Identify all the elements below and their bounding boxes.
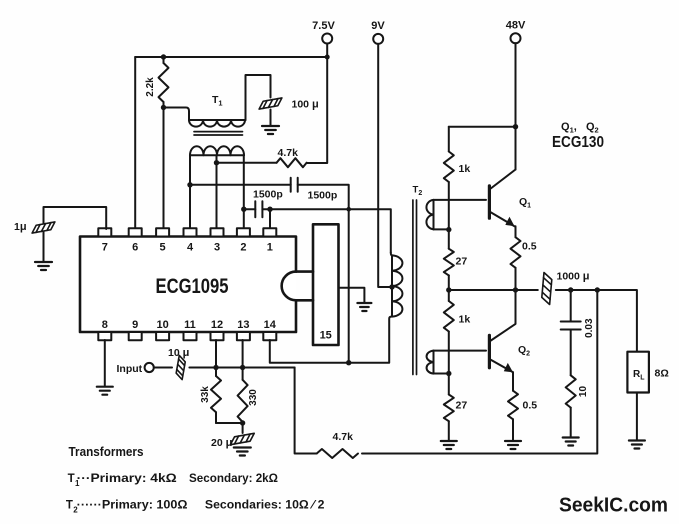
svg-text:10 μ: 10 μ [168, 347, 189, 359]
svg-text:14: 14 [264, 319, 277, 331]
capacitor C 1u [31, 222, 56, 233]
wire input line to feedback corner [189, 367, 294, 369]
svg-text:9V: 9V [371, 20, 385, 32]
svg-text:330: 330 [248, 389, 259, 406]
node line1/line2 crossing junction [346, 207, 351, 212]
wire pin3 drop [216, 163, 218, 229]
op-amp IC U1 ECG1095 body [80, 237, 296, 333]
resistor 1k upper [444, 127, 471, 230]
node pin13 junction [240, 365, 245, 370]
IC pin boxes [98, 228, 276, 340]
svg-text:1k: 1k [459, 163, 471, 175]
ground T2 chain [441, 441, 457, 449]
wire 7.5V down to y57 and to 4.7k [307, 44, 328, 164]
node 9V terminal [371, 20, 385, 44]
svg-text:27: 27 [456, 400, 468, 412]
svg-text:Input: Input [117, 363, 143, 375]
ground pin8 [97, 387, 113, 395]
resistor 27 upper [444, 230, 468, 290]
capacitor C 1000u [541, 272, 552, 304]
wire line1 y185 left [190, 184, 291, 186]
transformer T2 secondary 1 winding [426, 200, 448, 230]
wire T1 center tap [216, 155, 218, 163]
wire 33k bottom to 330 bottom [216, 422, 243, 424]
ground near 15 box [357, 303, 371, 311]
label Q1 Q2 ECG130 [552, 121, 604, 151]
svg-text:3: 3 [214, 242, 220, 254]
transformer T1 secondary winding [190, 146, 244, 155]
node T2 primary center tap [389, 284, 394, 289]
node Input terminal [117, 363, 154, 375]
node rail feedback junction [595, 287, 600, 292]
ground Q2 emitter [505, 441, 521, 449]
transformer T2 primary winding [391, 253, 403, 317]
node 7.5V terminal [312, 20, 335, 44]
wire RL to ground [636, 393, 638, 440]
wire feedback to input line [295, 368, 317, 454]
resistor 33k [200, 368, 221, 424]
svg-text:T: T [68, 473, 75, 485]
wire pin1 drop [269, 209, 271, 229]
wire feedback right drop [362, 290, 597, 454]
capacitor C 1500p lower [255, 201, 262, 217]
wire line2 right + drop x390.8 [262, 209, 390, 252]
node rail mid junction [513, 287, 518, 292]
wire pin12 drop [215, 340, 217, 368]
wire pin8 to ground [104, 340, 106, 386]
capacitor C 1500p upper [253, 178, 337, 202]
node 48V/1k junction [513, 124, 518, 129]
svg-text:0.5: 0.5 [523, 400, 538, 412]
wire pin14 to T2 primary bottom [270, 317, 392, 363]
ground below 100u [262, 126, 279, 134]
svg-text:100 μ: 100 μ [292, 99, 319, 111]
svg-text:13: 13 [237, 319, 249, 331]
svg-text:9: 9 [132, 319, 138, 331]
label T2 specs [66, 500, 325, 515]
svg-text:12: 12 [211, 319, 223, 331]
wire pin13 drop [242, 340, 244, 368]
wire 1u to ground [43, 232, 45, 262]
node 33k/330 junction [240, 420, 245, 425]
svg-text:Transformers: Transformers [69, 445, 144, 459]
ground RL [629, 441, 645, 449]
resistor 1k lower [444, 290, 471, 374]
node T1 sec left junction [187, 182, 192, 187]
node T2 sec1 bottom junction [446, 227, 451, 232]
svg-text:2.2k: 2.2k [145, 77, 156, 97]
wire T1 sec right end down [243, 155, 245, 229]
wire input to 10u [154, 367, 172, 369]
svg-text:48V: 48V [506, 20, 526, 32]
svg-text:······Primary: 100Ω: ······Primary: 100Ω [77, 500, 188, 512]
svg-text:4: 4 [187, 242, 194, 254]
svg-text:0.03: 0.03 [584, 318, 595, 338]
node T2 sec2 bottom junction [446, 371, 451, 376]
svg-text:1μ: 1μ [14, 221, 27, 233]
svg-text:7.5V: 7.5V [312, 20, 335, 32]
svg-text:8Ω: 8Ω [655, 368, 669, 380]
wire 48V junction to 1k [449, 126, 516, 128]
svg-text:SeekIC.com: SeekIC.com [559, 494, 668, 517]
node center tap junction [214, 160, 219, 165]
resistor RL load box [627, 352, 668, 393]
label T1 specs [68, 473, 278, 488]
wire IC-15 neck [296, 272, 313, 301]
svg-text:···Primary: 4kΩ: ···Primary: 4kΩ [77, 473, 177, 485]
wire 48V down to Q1 collector [515, 43, 517, 169]
ground 1u [35, 262, 52, 270]
node rail left junction [446, 287, 451, 292]
svg-text:T: T [66, 500, 73, 512]
svg-text:Secondaries: 10Ω ⁄ 2: Secondaries: 10Ω ⁄ 2 [205, 500, 325, 512]
transistor Q1 [489, 170, 531, 227]
wire Q2 base line [434, 350, 487, 352]
svg-text:Secondary: 2kΩ: Secondary: 2kΩ [189, 473, 278, 485]
svg-text:ECG1095: ECG1095 [156, 274, 229, 298]
node 2.2k top junction [161, 54, 166, 59]
wire 1u to pin7 [44, 207, 107, 229]
pin 15 box [313, 224, 339, 345]
resistor 330 [238, 368, 259, 424]
svg-text:0.5: 0.5 [522, 241, 537, 253]
svg-text:1500p: 1500p [308, 190, 338, 202]
IC pin numbers [102, 242, 277, 332]
resistor 4.7k upper [217, 147, 307, 167]
wire line1 right + drop x348.7 [298, 185, 349, 363]
resistor 0.5 upper [511, 226, 537, 290]
resistor 4.7k lower [317, 431, 358, 458]
svg-text:15: 15 [320, 330, 332, 342]
svg-text:6: 6 [132, 242, 138, 254]
capacitor C 100u [258, 98, 283, 109]
svg-text:11: 11 [184, 319, 196, 331]
wire 15 to ground stub [339, 288, 365, 302]
wire T1 sec left end down [189, 155, 191, 185]
svg-text:10: 10 [156, 319, 168, 331]
svg-text:20 μ: 20 μ [211, 437, 232, 449]
resistor 10 [566, 375, 589, 436]
wire Q1 base line [434, 199, 487, 201]
ground below 20u [234, 448, 251, 456]
node x348.7 junction [346, 360, 351, 365]
node 48V terminal [506, 20, 526, 44]
svg-text:33k: 33k [200, 386, 211, 403]
capacitor C 10u [175, 355, 186, 379]
svg-text:1: 1 [267, 242, 273, 254]
node pin1 junction [267, 207, 272, 212]
wire 9V down to T2 primary ct [378, 44, 392, 287]
svg-text:27: 27 [456, 256, 468, 268]
svg-text:1k: 1k [459, 314, 471, 326]
wire pin5 drop [163, 108, 165, 230]
svg-text:Q1, Q2: Q1, Q2 [561, 121, 599, 135]
wire Q2 collector [489, 290, 515, 342]
resistor 2.2k [145, 57, 169, 108]
svg-text:ECG130: ECG130 [552, 134, 604, 151]
transformer T1 primary winding [164, 108, 246, 127]
wire top rail y57 [135, 56, 327, 58]
resistor 0.5 lower [508, 372, 537, 440]
wire junction to 20u [242, 423, 244, 433]
resistor 27 lower [444, 374, 468, 441]
wire pin6 drop [134, 57, 136, 229]
node junction 7.5V rail [325, 55, 330, 60]
wire pin4 drop [189, 185, 191, 229]
transformer T2 core [413, 200, 417, 375]
svg-text:2: 2 [240, 242, 246, 254]
svg-text:1500p: 1500p [253, 189, 283, 201]
svg-text:10: 10 [578, 386, 589, 398]
svg-text:4.7k: 4.7k [333, 431, 354, 443]
node rail 0.03 junction [568, 287, 573, 292]
svg-text:5: 5 [160, 242, 166, 254]
svg-text:7: 7 [102, 242, 108, 254]
transistor Q2 [489, 335, 530, 372]
svg-text:1000 μ: 1000 μ [557, 271, 590, 283]
svg-text:4.7k: 4.7k [278, 147, 299, 159]
svg-text:8: 8 [102, 319, 108, 331]
node 2.2k bottom junction [161, 105, 166, 110]
transformer T1 core [194, 132, 243, 135]
capacitor C 0.03 [561, 290, 595, 375]
wire line2 left [244, 208, 256, 210]
wire 100u to ground [270, 110, 272, 126]
node pin12 junction [213, 365, 218, 370]
wire output rail [449, 290, 637, 352]
capacitor C 20u [229, 433, 255, 444]
ground 10 resistor [563, 438, 579, 446]
transformer T2 secondary 2 winding [427, 351, 449, 374]
wire T1 primary right to 100u [246, 75, 271, 120]
node line2 cap junction [241, 207, 246, 212]
